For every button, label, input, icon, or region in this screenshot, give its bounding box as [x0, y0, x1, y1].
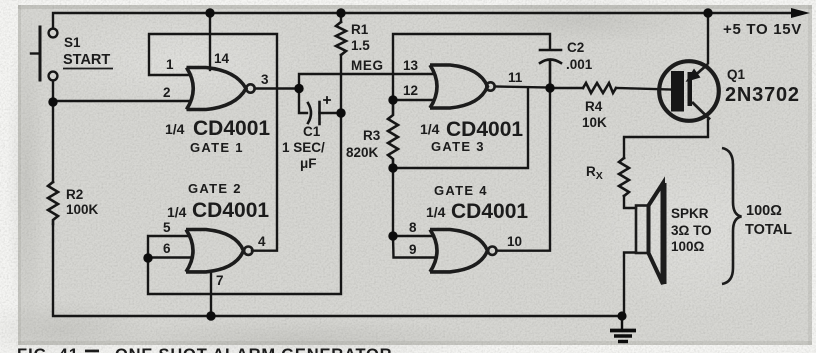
node: ground rail pin7 junction: [206, 311, 215, 320]
svg-text:1/4: 1/4: [426, 204, 446, 220]
svg-text:1/4: 1/4: [165, 121, 185, 137]
svg-text:CD4001: CD4001: [193, 117, 270, 140]
svg-text:1/4: 1/4: [420, 121, 440, 137]
wire: gate1 output3: [255, 87, 300, 89]
svg-text:μF: μF: [300, 156, 317, 171]
svg-text:GATE 2: GATE 2: [188, 181, 242, 196]
node: R3 bottom junction: [388, 163, 397, 172]
capacitor C2: [540, 50, 561, 88]
svg-text:5: 5: [163, 220, 171, 235]
svg-text:12: 12: [403, 83, 418, 98]
svg-text:GATE 1: GATE 1: [190, 140, 244, 155]
wire: R1 bottom to gate2 inputs box: [148, 55, 341, 294]
node: rail-emitter junction: [703, 8, 712, 17]
svg-text:CD4001: CD4001: [192, 199, 269, 222]
wire: Q1 collector down to Rx: [624, 120, 708, 158]
svg-text:8: 8: [409, 220, 417, 235]
node: pin8 junction: [388, 231, 397, 240]
node: C1/R1 junction: [336, 108, 345, 117]
wire: gate3 output 11: [495, 87, 551, 88]
wire: bottom ground rail: [52, 106, 54, 182]
svg-text:820K: 820K: [346, 145, 379, 160]
wire: gate2 pin7 down to rail: [210, 272, 212, 316]
wire: Rx to speaker top terminal: [624, 196, 636, 208]
svg-text:GATE 3: GATE 3: [431, 139, 485, 154]
svg-text:MEG: MEG: [351, 58, 384, 73]
svg-text:100Ω: 100Ω: [746, 203, 782, 219]
svg-text:C1: C1: [303, 124, 321, 139]
svg-text:CD4001: CD4001: [446, 118, 523, 141]
svg-text:1.5: 1.5: [351, 38, 370, 53]
wire: gate3 box top edge to C2: [393, 34, 550, 100]
svg-text:GATE 4: GATE 4: [434, 183, 488, 198]
ground: [610, 316, 636, 342]
svg-text:10: 10: [507, 234, 522, 249]
brace 100ohm total: [722, 148, 742, 284]
svg-text:2: 2: [163, 85, 171, 100]
svg-text:TOTAL: TOTAL: [745, 222, 792, 238]
svg-text:R4: R4: [585, 99, 603, 114]
svg-text:1/4: 1/4: [167, 204, 187, 220]
wire: pin2 input from S1: [53, 100, 191, 102]
svg-text:14: 14: [214, 51, 230, 66]
svg-text:Q1: Q1: [727, 67, 746, 82]
node: rail-pin14 junction: [205, 8, 214, 17]
node: S1/R2/pin2 junction: [48, 97, 57, 106]
svg-text:3Ω TO: 3Ω TO: [671, 223, 712, 238]
svg-text:4: 4: [258, 234, 266, 249]
wire: gate1 feedback box (input1 to gate2 output4): [149, 34, 277, 251]
wire: C1 left leg: [299, 89, 307, 114]
node: gate1 out / C1 / pin13: [294, 84, 303, 93]
speaker SPKR: [636, 183, 664, 284]
node: ground junction: [617, 311, 626, 320]
wire: R4 to Q1 base: [616, 88, 671, 90]
svg-text:CD4001: CD4001: [451, 200, 528, 223]
svg-text:100K: 100K: [66, 202, 99, 217]
wire: gate3 box bottom and right edge: [393, 88, 528, 169]
svg-text:9: 9: [409, 242, 417, 257]
svg-text:.001: .001: [566, 57, 593, 72]
resistor R3: [388, 100, 398, 168]
node: gate2 pin6 junction: [143, 253, 152, 262]
NOR gate GATE 2 (1/4 CD4001): [186, 230, 253, 272]
resistor R2: [48, 182, 58, 224]
wire: Q1 emitter to +V rail: [707, 13, 709, 63]
svg-text:7: 7: [216, 273, 224, 288]
NOR gate GATE 1 (1/4 CD4001): [187, 68, 255, 110]
wire: pin12 line: [393, 99, 434, 101]
svg-text:START: START: [63, 52, 110, 68]
wire: node A to gate3 pin13: [299, 74, 432, 89]
wire: gate4 inputs left leg: [393, 168, 434, 236]
svg-text:ONE SHOT ALARM GENERATOR: ONE SHOT ALARM GENERATOR: [115, 346, 392, 353]
svg-text:3: 3: [261, 72, 269, 87]
resistor R4: [583, 83, 616, 93]
svg-text:1: 1: [166, 57, 174, 72]
svg-text:6: 6: [163, 241, 171, 256]
NOR gate GATE 3 (1/4 CD4001): [430, 65, 495, 108]
svg-text:1 SEC/: 1 SEC/: [282, 140, 325, 155]
capacitor C1: [308, 97, 341, 124]
NOR gate GATE 4 (1/4 CD4001): [430, 230, 496, 272]
node: C2/R4/out10 junction: [545, 83, 554, 92]
svg-text:R3: R3: [363, 128, 381, 143]
node: pin12/R3 junction: [388, 95, 397, 104]
svg-text:+5 TO 15V: +5 TO 15V: [723, 21, 802, 38]
svg-text:R2: R2: [66, 187, 83, 202]
svg-text:FIG. 41: FIG. 41: [17, 346, 79, 353]
resistor R1: [336, 22, 346, 55]
svg-text:11: 11: [508, 70, 523, 85]
svg-text:S1: S1: [64, 35, 81, 50]
arrow +V supply: [791, 8, 810, 18]
wire: gate4 output 10 up to C2 node: [497, 88, 551, 251]
wire: +V top rail: [53, 13, 795, 29]
svg-text:2N3702: 2N3702: [725, 84, 800, 106]
transistor Q1: [659, 61, 719, 121]
svg-text:C2: C2: [567, 40, 584, 55]
svg-text:100Ω: 100Ω: [671, 239, 705, 254]
wire: C2 node to R4: [550, 87, 583, 89]
wire: R1 branch vertical: [340, 13, 342, 22]
wire: speaker bottom terminal to ground rail: [624, 253, 636, 317]
svg-text:13: 13: [403, 58, 419, 73]
svg-text:SPKR: SPKR: [671, 206, 709, 221]
node: rail-R1 junction: [336, 8, 345, 17]
wire: gate2 pin5/6 left leg: [148, 236, 190, 258]
resistor Rx: [619, 158, 629, 196]
wire: pin14 from +V rail: [209, 13, 211, 70]
svg-text:10K: 10K: [582, 115, 607, 130]
switch S1: [31, 27, 57, 101]
svg-text:R1: R1: [351, 22, 369, 37]
